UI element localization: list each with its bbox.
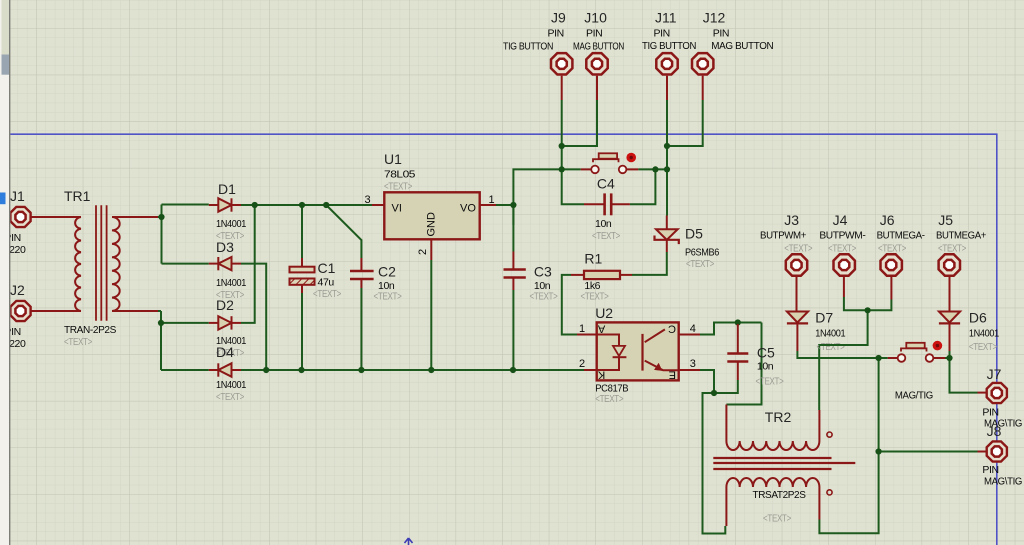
svg-text:1N4001: 1N4001 <box>216 277 246 289</box>
svg-text:<TEXT>: <TEXT> <box>592 230 620 242</box>
optocoupler U2 PC817B <box>577 322 700 380</box>
junction U2 pin3 node <box>711 390 717 396</box>
svg-text:D5: D5 <box>685 226 703 242</box>
svg-text:<TEXT>: <TEXT> <box>817 341 845 353</box>
wire switch left stub join <box>879 357 888 359</box>
svg-text:C5: C5 <box>757 345 775 361</box>
wire TR1 top to D1/D3 <box>158 205 209 264</box>
wire D7 to switch left <box>797 351 878 358</box>
wire TR1 bottom to D2/D4 <box>158 311 209 370</box>
svg-text:3: 3 <box>690 358 696 370</box>
junction D3 bottom rail <box>263 367 269 373</box>
svg-text:J1: J1 <box>10 188 25 204</box>
capacitor C1 (electrolytic) <box>290 258 315 293</box>
svg-text:P6SMB6: P6SMB6 <box>685 247 719 259</box>
diode D3 <box>209 257 241 270</box>
svg-text:MAG BUTTON: MAG BUTTON <box>573 40 624 52</box>
junction J9/J10 node <box>559 143 565 149</box>
wire D1 cathode rail to U1 VI <box>241 204 372 206</box>
svg-text:<TEXT>: <TEXT> <box>581 291 609 303</box>
junction switch row right <box>664 166 670 172</box>
wire D5 to R1 <box>632 252 667 275</box>
svg-text:PIN: PIN <box>982 464 998 476</box>
sheet border (blue) <box>10 134 997 545</box>
svg-text:1N4001: 1N4001 <box>969 328 999 340</box>
junction C5 top <box>735 319 741 325</box>
svg-text:2: 2 <box>417 249 429 255</box>
wire VO node down to C3 <box>512 205 514 252</box>
svg-text:J6: J6 <box>880 212 895 228</box>
junction J4/J6 node <box>865 307 871 313</box>
svg-text:K: K <box>597 368 605 380</box>
svg-text:3: 3 <box>365 194 371 206</box>
wire J8 branch <box>879 451 978 453</box>
svg-text:<TEXT>: <TEXT> <box>828 243 856 255</box>
connector J8 <box>978 441 1007 461</box>
svg-text:47u: 47u <box>318 277 335 289</box>
junction J8 branch <box>876 448 882 454</box>
wire overlay J4/J6 node to TR2 <box>819 344 867 346</box>
svg-text:BUTMEGA-: BUTMEGA- <box>877 229 926 241</box>
wire D2 cathode up to positive rail <box>241 205 255 323</box>
wire C2 bottom <box>360 288 362 370</box>
capacitor C4 <box>584 193 630 215</box>
svg-text:MAG BUTTON: MAG BUTTON <box>711 40 773 52</box>
svg-text:TR2: TR2 <box>765 409 792 425</box>
junction switch-left/D7 node <box>876 355 882 361</box>
svg-text:<TEXT>: <TEXT> <box>313 288 341 300</box>
transformer TR1 <box>57 205 158 321</box>
wire switch-left node down to TR2 secondary right rail <box>819 358 878 533</box>
connector J11 <box>656 53 677 100</box>
resistor R1 <box>571 271 632 279</box>
connector J1 <box>10 207 57 227</box>
junction TR1 bottom node <box>158 320 164 326</box>
connector J10 <box>586 53 607 100</box>
junction TR1 top node <box>158 214 164 220</box>
junction C1 bottom rail <box>298 367 304 373</box>
svg-text:TIG BUTTON: TIG BUTTON <box>642 40 696 52</box>
svg-text:TRAN-2P2S: TRAN-2P2S <box>64 324 116 336</box>
connector J9 <box>551 53 572 100</box>
diode D4 <box>209 363 241 376</box>
svg-text:4: 4 <box>690 323 696 335</box>
svg-text:J11: J11 <box>655 10 677 26</box>
svg-text:C: C <box>668 323 676 335</box>
wire VO node up to switch row <box>513 169 561 225</box>
junction C4 right <box>652 166 658 172</box>
svg-text:D7: D7 <box>815 310 833 326</box>
svg-text:J7: J7 <box>987 366 1002 382</box>
left UI column <box>0 0 10 545</box>
wire C1 top <box>301 205 303 258</box>
svg-text:D6: D6 <box>969 310 987 326</box>
wire J4 drop <box>844 297 892 310</box>
diode D7 <box>787 277 808 351</box>
junction C1 top <box>299 202 305 208</box>
svg-text:BUTPWM+: BUTPWM+ <box>760 229 806 241</box>
svg-text:GND: GND <box>426 212 438 237</box>
wire D6 bottom <box>949 351 951 358</box>
svg-text:<TEXT>: <TEXT> <box>938 243 966 255</box>
connector J12 <box>692 53 713 100</box>
wire switch row left <box>562 168 581 170</box>
svg-text:VI: VI <box>392 203 402 215</box>
wire U1 VO to node <box>496 204 513 206</box>
junction D6/J7 node <box>946 355 952 361</box>
wire bottom rail D4 to U2 pin2 <box>241 369 584 371</box>
svg-text:<TEXT>: <TEXT> <box>878 243 906 255</box>
wire J10 drop <box>562 100 597 146</box>
connector J3 <box>786 254 807 275</box>
svg-text:D1: D1 <box>218 181 236 197</box>
connector J5 <box>939 254 960 311</box>
svg-text:1: 1 <box>489 194 495 206</box>
wire C4 left loop <box>562 169 584 204</box>
svg-text:1N4001: 1N4001 <box>216 218 246 230</box>
svg-text:PIN: PIN <box>654 28 670 40</box>
wire C5 bottom to node <box>714 380 738 393</box>
svg-text:1N4001: 1N4001 <box>216 379 246 391</box>
transformer TR2 <box>713 405 855 527</box>
svg-text:<TEXT>: <TEXT> <box>374 291 402 303</box>
switch indicator (red) <box>626 153 636 163</box>
junction switch row left <box>559 166 565 172</box>
junction U1 GND rail <box>428 367 434 373</box>
svg-text:1N4001: 1N4001 <box>815 328 845 340</box>
svg-text:<TEXT>: <TEXT> <box>530 291 558 303</box>
svg-text:MAG/TIG: MAG/TIG <box>895 390 933 402</box>
switch MAG/TIG <box>888 343 946 362</box>
wire J9 drop <box>561 100 563 146</box>
svg-text:J8: J8 <box>987 423 1002 439</box>
svg-text:BUTPWM-: BUTPWM- <box>819 229 866 241</box>
svg-text:J2: J2 <box>10 282 25 298</box>
svg-text:PIN: PIN <box>548 28 564 40</box>
svg-text:TRSAT2P2S: TRSAT2P2S <box>753 489 806 501</box>
junction diagonal <box>323 202 329 208</box>
wire R1 left to U2 pin1 <box>562 275 577 335</box>
svg-text:TR1: TR1 <box>64 188 91 204</box>
svg-text:<TEXT>: <TEXT> <box>763 513 791 525</box>
svg-text:<TEXT>: <TEXT> <box>686 258 714 270</box>
svg-text:10n: 10n <box>595 218 612 230</box>
wire diagonal to C2 <box>326 205 361 258</box>
svg-text:E: E <box>669 368 676 380</box>
wire switch right to D6 node <box>933 357 949 359</box>
wire U2 pin4 to C5 top node <box>700 323 762 335</box>
svg-text:78L05: 78L05 <box>384 169 416 181</box>
wire C1 bottom <box>301 293 303 370</box>
wire D3 anode to bottom rail <box>241 264 266 370</box>
wire J9 node to switch row <box>561 146 563 169</box>
svg-text:C4: C4 <box>597 176 615 192</box>
switch MAG/TIG indicator (red) <box>933 341 943 351</box>
wire top node down to TR2 primary left <box>726 323 761 405</box>
wire TR2 primary right up to J4/J6 node <box>819 310 867 410</box>
connector J6 <box>881 254 902 299</box>
svg-text:J10: J10 <box>584 10 607 26</box>
regulator U1 78L05 <box>372 192 496 260</box>
svg-text:VO: VO <box>460 203 476 215</box>
switch TIG (push button near C4) <box>581 153 639 173</box>
svg-text:10n: 10n <box>757 361 774 373</box>
diode D2 <box>209 316 241 329</box>
wire U2 pin3 to node <box>700 370 714 393</box>
svg-text:BUTMEGA+: BUTMEGA+ <box>936 229 986 241</box>
origin marker <box>405 538 413 545</box>
wire D6 node to J7 <box>950 358 978 393</box>
wire J11 drop <box>666 100 668 146</box>
svg-text:D3: D3 <box>216 239 234 255</box>
wire J12 drop <box>667 100 703 146</box>
svg-text:<TEXT>: <TEXT> <box>64 336 92 348</box>
junction J11/J12 node <box>664 143 670 149</box>
svg-text:J3: J3 <box>784 212 799 228</box>
svg-text:<TEXT>: <TEXT> <box>384 181 412 193</box>
svg-text:R1: R1 <box>584 251 602 267</box>
svg-text:D4: D4 <box>216 344 234 360</box>
svg-text:<TEXT>: <TEXT> <box>216 391 244 403</box>
wire node to TR2 secondary left <box>703 393 726 534</box>
svg-text:PIN: PIN <box>713 28 729 40</box>
connector J4 <box>834 254 855 297</box>
diode D6 <box>939 312 960 352</box>
wire J11 node down to D5 <box>666 146 668 216</box>
junction C3 bottom rail <box>510 367 516 373</box>
svg-text:C2: C2 <box>378 264 396 280</box>
junction C2 bottom rail <box>358 367 364 373</box>
svg-text:C1: C1 <box>318 260 336 276</box>
svg-text:U1: U1 <box>384 151 402 167</box>
svg-text:J4: J4 <box>833 212 848 228</box>
connector J7 <box>978 383 1007 403</box>
svg-text:J5: J5 <box>938 212 953 228</box>
svg-text:<TEXT>: <TEXT> <box>595 393 623 405</box>
svg-text:2: 2 <box>579 358 585 370</box>
junction D2 rail <box>252 202 258 208</box>
capacitor C2 <box>350 258 374 288</box>
svg-text:U2: U2 <box>595 305 613 321</box>
capacitor C5 <box>727 324 748 380</box>
svg-text:MAG\TIG: MAG\TIG <box>984 476 1022 488</box>
wire C5 top lead node down <box>737 323 739 325</box>
svg-text:J12: J12 <box>703 10 726 26</box>
connector J2 <box>10 301 57 321</box>
svg-text:1: 1 <box>579 323 585 335</box>
wire C4 right loop <box>630 169 656 204</box>
junction VO node <box>510 202 516 208</box>
svg-text:C3: C3 <box>534 264 552 280</box>
wire switch row right <box>638 168 667 170</box>
svg-text:<TEXT>: <TEXT> <box>784 243 812 255</box>
diode D1 <box>209 198 241 211</box>
svg-text:D2: D2 <box>216 297 234 313</box>
svg-text:A: A <box>597 323 605 335</box>
svg-text:J9: J9 <box>551 10 566 26</box>
diode D5 (TVS) <box>655 216 679 253</box>
capacitor C3 <box>504 252 526 291</box>
wire U1 GND down <box>430 260 432 370</box>
wire C3 bottom <box>512 290 514 370</box>
svg-text:PIN: PIN <box>586 28 602 40</box>
svg-text:<TEXT>: <TEXT> <box>969 341 997 353</box>
svg-text:<TEXT>: <TEXT> <box>756 376 784 388</box>
svg-text:TIG BUTTON: TIG BUTTON <box>503 40 553 52</box>
